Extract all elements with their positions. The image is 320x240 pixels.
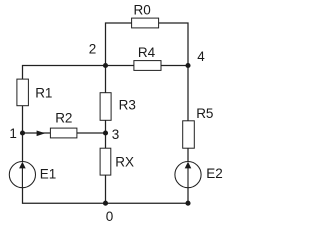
svg-text:0: 0 [106,209,114,224]
svg-text:4: 4 [197,49,205,64]
svg-text:R2: R2 [55,110,72,125]
svg-text:1: 1 [9,126,17,141]
svg-text:R1: R1 [35,85,52,100]
svg-text:E2: E2 [206,166,223,181]
svg-text:R5: R5 [196,106,213,121]
svg-text:RX: RX [115,155,134,170]
svg-text:3: 3 [112,127,120,142]
svg-text:R0: R0 [134,2,151,17]
svg-text:R4: R4 [138,45,156,60]
svg-text:R3: R3 [119,98,136,113]
svg-text:E1: E1 [40,167,57,182]
svg-text:2: 2 [89,42,97,57]
